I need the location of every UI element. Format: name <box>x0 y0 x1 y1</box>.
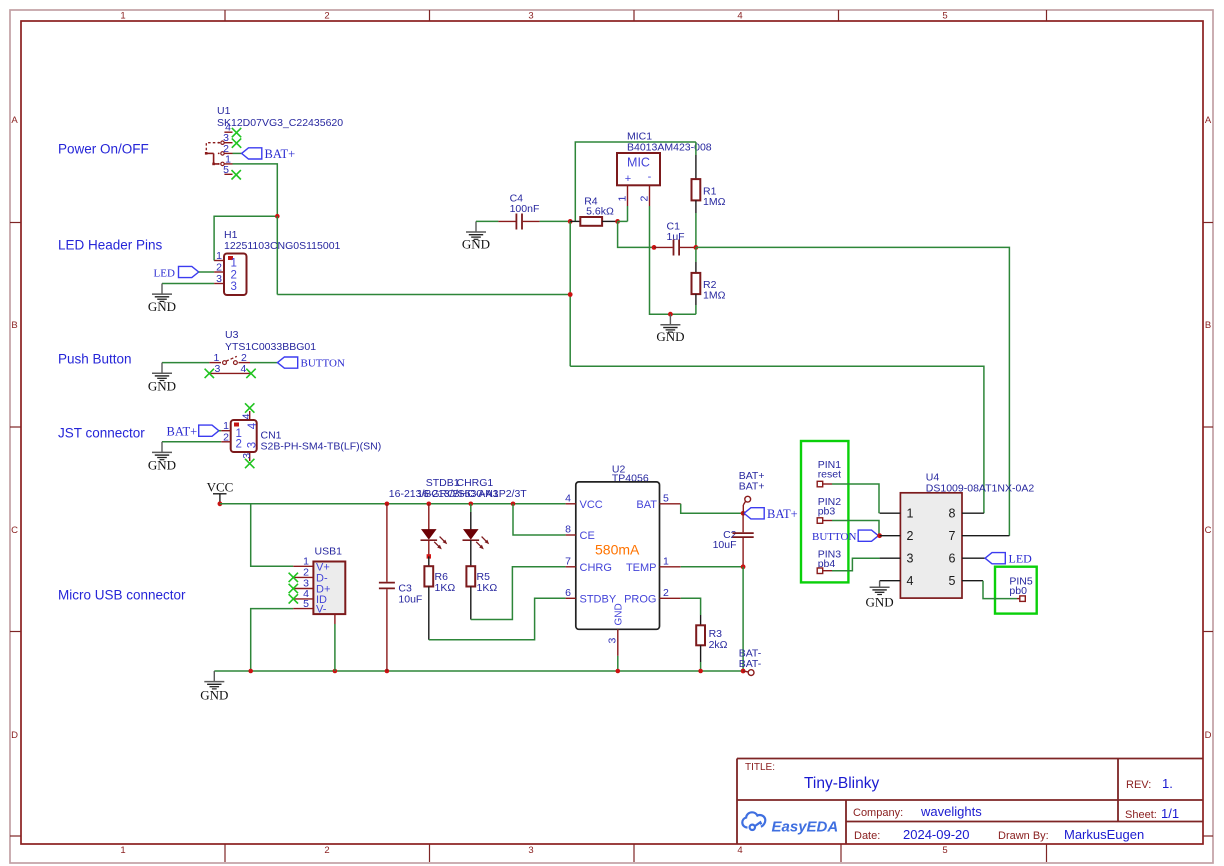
junction dot node E (C1 right) <box>694 245 699 250</box>
header H1 pin1 marker <box>228 256 233 260</box>
header H1 pin 3 lead <box>214 283 224 285</box>
svg-text:1.: 1. <box>1162 776 1173 791</box>
svg-text:3: 3 <box>216 273 222 285</box>
U4 pin 7 lead <box>962 535 1010 537</box>
no-connect X U3 pin 3 <box>205 369 214 378</box>
svg-text:3: 3 <box>907 552 914 566</box>
USB1 pin 2 lead <box>293 576 313 578</box>
svg-text:C: C <box>11 525 18 536</box>
LED STDB1 <box>421 504 448 557</box>
resistor R5 <box>466 566 475 619</box>
svg-text:STDBY: STDBY <box>580 593 617 605</box>
wire BAT+ flag to CN1 pin1 <box>219 430 221 432</box>
port PIN3 square <box>817 568 823 574</box>
wire U2 TEMP to node <box>681 566 743 568</box>
ground (H1) <box>152 284 172 302</box>
U4 pin numbers <box>907 507 956 589</box>
svg-text:EasyEDA: EasyEDA <box>772 819 839 836</box>
wire node C down to C1 row <box>618 221 654 247</box>
no-connect X USB1 pin 2 <box>289 573 298 582</box>
resistor R1 <box>692 142 701 247</box>
wire MIC pin2 down <box>650 206 671 314</box>
svg-text:GND: GND <box>148 379 176 394</box>
svg-text:2: 2 <box>907 529 914 543</box>
port PIN1 square <box>817 481 823 487</box>
U2 left pin names <box>580 499 617 606</box>
no-connect X U1 pin 4 <box>232 128 241 137</box>
svg-text:reset: reset <box>818 469 841 481</box>
svg-text:1: 1 <box>907 507 914 521</box>
MIC1 pin 2 lead <box>649 185 651 206</box>
wire USB1 V- to bottom rail <box>251 609 294 671</box>
svg-text:A: A <box>1205 115 1212 126</box>
svg-text:+: + <box>625 173 631 185</box>
svg-text:-: - <box>648 171 652 183</box>
svg-text:B4013AM423-008: B4013AM423-008 <box>627 142 712 154</box>
wire node E to U4 pin7 column <box>696 247 1010 535</box>
U2 pin 2 PROG lead <box>660 597 681 599</box>
svg-text:3: 3 <box>215 363 221 375</box>
wire CN1 pin2 to ground <box>162 441 221 443</box>
U2 pin 6 STDBY lead <box>566 597 576 599</box>
svg-text:Drawn By:: Drawn By: <box>998 830 1049 842</box>
frame bottom ruler ticks <box>225 844 1047 862</box>
wire node A down to node F <box>276 216 278 294</box>
title block outline <box>737 759 1203 845</box>
svg-text:LED: LED <box>154 268 175 280</box>
svg-text:6: 6 <box>565 587 571 599</box>
pushbutton U3 pin 1 lead <box>209 362 221 364</box>
resistor R3 <box>696 615 705 671</box>
svg-text:V-: V- <box>316 604 327 616</box>
svg-text:5: 5 <box>949 574 956 588</box>
U2 right pin names <box>624 499 657 606</box>
junction dot rail/C3 <box>385 669 390 674</box>
USB1 pin 1 lead <box>293 565 313 567</box>
frame column numbers top <box>120 11 947 22</box>
junction dot rail/U2 GND <box>616 669 621 674</box>
svg-text:5: 5 <box>303 598 309 610</box>
svg-text:BAT: BAT <box>636 499 657 511</box>
svg-text:16-213/BHC-AN1P2/3T: 16-213/BHC-AN1P2/3T <box>417 488 527 500</box>
wire U3 pin2 to BUTTON flag <box>250 362 278 364</box>
bottom ground rail wire <box>214 670 743 672</box>
resistor R2 <box>692 247 701 314</box>
wire U4 pin5 to PIN5 port <box>983 581 1017 599</box>
header H1 inner pin names <box>231 258 237 294</box>
svg-text:CE: CE <box>580 530 595 542</box>
svg-text:3: 3 <box>607 638 619 644</box>
header H1 outer pin numbers <box>216 250 222 285</box>
wire U1 pin1 to node A <box>233 164 278 216</box>
junction dot rail/USB shield <box>333 669 338 674</box>
svg-text:BAT+: BAT+ <box>739 481 765 493</box>
svg-text:pb0: pb0 <box>1009 585 1027 597</box>
no-connect X CN1 pin 4 <box>245 403 254 412</box>
port BAT+ circle <box>745 496 751 502</box>
capacitor C1 <box>654 240 696 256</box>
svg-text:580mA: 580mA <box>595 542 640 558</box>
junction dot VCC/STDB1 <box>427 502 432 507</box>
svg-text:BUTTON: BUTTON <box>301 358 345 370</box>
USB1 shield pin lead <box>334 614 336 624</box>
svg-text:4: 4 <box>241 413 253 419</box>
wire ground to U3 pin1 <box>162 362 209 364</box>
svg-text:4: 4 <box>247 422 259 429</box>
svg-text:1: 1 <box>120 11 125 22</box>
junction dot node C <box>615 219 620 224</box>
svg-text:pb3: pb3 <box>818 506 836 518</box>
switch U1 pin numbers <box>223 122 231 176</box>
svg-text:Tiny-Blinky: Tiny-Blinky <box>804 775 879 792</box>
wire U2 PROG to R3 <box>681 598 701 615</box>
switch U1 pin 3 lead <box>224 142 232 144</box>
svg-text:CHRG: CHRG <box>580 562 612 574</box>
EasyEDA logo cloud <box>742 812 765 830</box>
svg-text:VCC: VCC <box>580 499 603 511</box>
net flag BUTTON (U3) <box>278 357 298 368</box>
frame row letters right <box>1205 115 1212 741</box>
svg-text:1: 1 <box>617 196 629 202</box>
ground (MIC area) <box>660 314 680 332</box>
resistor R6 <box>424 556 433 639</box>
svg-text:VCC: VCC <box>207 480 234 495</box>
svg-text:A: A <box>11 115 18 126</box>
svg-text:PROG: PROG <box>624 593 656 605</box>
junction dot node D (C1 left) <box>652 245 657 250</box>
capacitor C3 <box>379 504 395 671</box>
wire R6 to U2 STDBY <box>429 598 566 640</box>
green highlight box PIN1-PIN3 <box>801 441 848 582</box>
svg-text:1KΩ: 1KΩ <box>477 582 498 594</box>
svg-text:4: 4 <box>241 363 247 375</box>
no-connect X USB1 pin 3 <box>289 584 298 593</box>
svg-text:3: 3 <box>528 11 533 22</box>
frame column numbers bottom <box>120 845 947 856</box>
microphone MIC1 body <box>617 153 660 185</box>
svg-text:5: 5 <box>942 11 947 22</box>
svg-text:8: 8 <box>949 507 956 521</box>
svg-text:C: C <box>1205 525 1212 536</box>
U2 pin 5 BAT lead <box>660 503 681 505</box>
svg-text:2024-09-20: 2024-09-20 <box>903 827 970 842</box>
svg-text:3: 3 <box>231 281 237 293</box>
USB1 pin names <box>316 561 330 615</box>
wire LED flag to H1 pin2 <box>199 271 214 273</box>
U2 GND pin lead <box>617 629 619 656</box>
svg-text:Power On/OFF: Power On/OFF <box>58 142 149 157</box>
wire PIN1 to U4 pin1 <box>823 483 832 485</box>
svg-text:MarkusEugen: MarkusEugen <box>1064 827 1144 842</box>
USB1 pin 3 lead <box>293 588 313 590</box>
svg-text:GND: GND <box>866 595 894 610</box>
svg-text:1uF: 1uF <box>667 231 685 243</box>
net flag BAT+ (U1) <box>242 148 262 159</box>
svg-text:SK12D07VG3_C22435620: SK12D07VG3_C22435620 <box>217 117 343 129</box>
switch U1 pin 1 lead <box>224 163 232 165</box>
wire R5 to U2 CHRG <box>471 567 566 620</box>
wire node C to MIC pin1 <box>618 220 628 222</box>
svg-text:S2B-PH-SM4-TB(LF)(SN): S2B-PH-SM4-TB(LF)(SN) <box>261 441 382 453</box>
svg-text:5: 5 <box>942 845 947 856</box>
svg-text:LED Header Pins: LED Header Pins <box>58 238 163 253</box>
switch U1 pin 5 lead <box>224 173 232 175</box>
junction dot node F <box>568 292 573 297</box>
switch U1 pin 4 lead <box>224 131 232 133</box>
svg-text:1KΩ: 1KΩ <box>435 582 456 594</box>
svg-text:LED: LED <box>1009 552 1033 566</box>
svg-text:10uF: 10uF <box>398 594 422 606</box>
svg-text:2: 2 <box>223 431 229 443</box>
svg-text:4: 4 <box>737 845 742 856</box>
wire MIC top feed <box>575 142 696 221</box>
svg-text:MIC: MIC <box>627 156 650 170</box>
svg-text:YTS1C0033BBG01: YTS1C0033BBG01 <box>225 341 316 353</box>
USB1 pin numbers <box>303 556 309 610</box>
ground (U3) <box>152 363 172 381</box>
svg-text:12251103CNG0S115001: 12251103CNG0S115001 <box>224 240 341 252</box>
wire ground to C4 <box>476 220 498 222</box>
junction dot BAT+ node <box>741 511 746 516</box>
wire C4 to node B <box>540 220 571 222</box>
svg-text:2: 2 <box>324 11 329 22</box>
no-connect X U1 pin 5 <box>232 170 241 179</box>
svg-text:D: D <box>11 730 18 741</box>
svg-text:2: 2 <box>663 587 669 599</box>
no-connect X USB1 pin 4 <box>289 594 298 603</box>
switch U1 pin 2 lead <box>224 152 232 154</box>
wire VCC rail to USB1 V+ <box>251 504 294 567</box>
svg-text:5.6kΩ: 5.6kΩ <box>586 206 614 218</box>
svg-text:GND: GND <box>148 299 176 314</box>
svg-text:JST connector: JST connector <box>58 426 145 441</box>
port PIN5 square <box>1020 596 1026 602</box>
svg-text:1: 1 <box>663 555 669 567</box>
svg-text:4: 4 <box>565 492 571 504</box>
svg-text:Sheet:: Sheet: <box>1125 809 1157 821</box>
net flag LED (U4) <box>985 553 1005 564</box>
svg-text:1MΩ: 1MΩ <box>703 290 726 302</box>
junction dot rail/USB vertical <box>248 669 253 674</box>
svg-text:2: 2 <box>231 269 237 281</box>
capacitor C2 labels <box>713 529 737 551</box>
svg-text:100nF: 100nF <box>510 203 540 215</box>
svg-text:1: 1 <box>231 258 237 270</box>
JST CN1 pin1 marker <box>234 423 239 427</box>
svg-text:3: 3 <box>528 845 533 856</box>
U4 pin 8 lead <box>962 512 984 514</box>
svg-text:GND: GND <box>656 329 684 344</box>
ground (CN1) <box>152 442 172 460</box>
net flag BAT+ (U2) <box>744 508 764 519</box>
resistor R4 <box>570 217 617 226</box>
svg-text:Push Button: Push Button <box>58 352 132 367</box>
U4 pin 4 lead <box>880 580 901 582</box>
svg-text:3: 3 <box>247 442 259 448</box>
switch U1 body <box>205 141 224 166</box>
wire PIN2 to BUTTON node <box>823 520 832 522</box>
svg-text:BUTTON: BUTTON <box>812 531 856 543</box>
junction dot VCC/CHRG1 <box>469 502 474 507</box>
junction dot TEMP node <box>741 564 746 569</box>
JST CN1 pin 2 lead <box>221 441 231 443</box>
pushbutton U3 actuator <box>226 356 237 361</box>
no-connect X CN1 pin 3 <box>245 459 254 468</box>
svg-text:4: 4 <box>737 11 742 22</box>
U2 left pin numbers <box>565 492 571 599</box>
svg-text:8: 8 <box>565 524 571 536</box>
U4 pin 5 lead <box>962 580 983 582</box>
wire TEMP node down to BAT- <box>742 567 744 671</box>
svg-text:1: 1 <box>120 845 125 856</box>
svg-text:2: 2 <box>324 845 329 856</box>
frame top ruler ticks <box>225 10 1047 21</box>
capacitor C2 <box>733 513 754 567</box>
JST CN1 pin 1 lead <box>221 430 231 432</box>
junction dot VCC/C3 <box>385 502 390 507</box>
ground (U4 pin4) <box>870 581 890 595</box>
svg-text:U1: U1 <box>217 105 231 117</box>
U4 pin 1 lead <box>880 512 901 514</box>
USB1 pin 5 lead <box>293 608 313 610</box>
JST CN1 pin 3 lead bottom <box>249 452 251 461</box>
wire PIN3 to U4 pin3 <box>823 570 832 572</box>
svg-text:BAT+: BAT+ <box>767 507 798 521</box>
pushbutton U3 pin 2 lead <box>239 362 251 364</box>
junction dot rail/R3 <box>698 669 703 674</box>
green highlight box PIN5 <box>995 567 1037 614</box>
header H1 pin 1 lead <box>214 260 224 262</box>
svg-text:Company:: Company: <box>853 807 903 819</box>
wire VCC rail <box>220 503 566 505</box>
wire H1 pin3 to ground <box>162 283 214 285</box>
svg-text:1/1: 1/1 <box>1161 806 1179 821</box>
svg-text:Date:: Date: <box>854 830 880 842</box>
header H1 body <box>224 254 247 296</box>
capacitor C4 <box>498 214 539 230</box>
svg-text:B: B <box>11 320 17 331</box>
JST CN1 pin numbers <box>223 420 229 443</box>
svg-text:4: 4 <box>907 574 914 588</box>
USB1 body <box>313 562 345 615</box>
port PIN2 square <box>817 518 823 524</box>
junction dot rail/BAT- <box>741 669 746 674</box>
frame right ruler ticks <box>1203 223 1213 837</box>
svg-text:10uF: 10uF <box>713 539 737 551</box>
svg-text:GND: GND <box>614 603 625 625</box>
svg-text:2: 2 <box>236 439 242 451</box>
IC U2 body <box>576 482 660 629</box>
svg-text:5: 5 <box>663 492 669 504</box>
svg-text:GND: GND <box>200 688 228 703</box>
port BAT- circle <box>748 670 754 676</box>
VCC junction dot <box>218 501 223 506</box>
wire VCC branch to U2 CE <box>513 504 566 535</box>
svg-text:6: 6 <box>949 552 956 566</box>
svg-text:GND: GND <box>462 237 490 252</box>
wire USB1 shield to rail <box>334 624 336 671</box>
U4 pin 6 lead <box>962 557 985 559</box>
svg-text:TEMP: TEMP <box>626 562 657 574</box>
svg-text:TITLE:: TITLE: <box>745 762 775 773</box>
U2 pin 7 CHRG lead <box>566 566 576 568</box>
pushbutton U3 contacts <box>223 361 227 365</box>
svg-text:3: 3 <box>241 453 253 459</box>
svg-text:Micro USB connector: Micro USB connector <box>58 588 186 603</box>
no-connect X U3 pin 4 <box>246 369 255 378</box>
pushbutton U3 pin numbers <box>214 352 248 375</box>
junction dot node B <box>568 219 573 224</box>
USB1 pin 4 lead <box>293 598 313 600</box>
svg-text:7: 7 <box>565 555 571 567</box>
svg-text:1: 1 <box>216 250 222 262</box>
no-connect X U1 pin 3 <box>232 138 241 147</box>
frame row letters left <box>11 115 18 741</box>
pushbutton U3 pins 3-4 bar <box>209 372 251 374</box>
wire node B down through node F <box>569 221 571 366</box>
wire U2 GND to rail <box>617 656 619 671</box>
wire node F horizontal to MIC column <box>277 294 570 296</box>
svg-text:5: 5 <box>223 164 229 176</box>
svg-text:wavelights: wavelights <box>920 804 982 819</box>
svg-text:D: D <box>1205 730 1212 741</box>
wire node A to H1 pin1 <box>214 216 277 260</box>
svg-text:BAT+: BAT+ <box>167 425 198 439</box>
svg-text:USB1: USB1 <box>315 546 343 558</box>
junction dot node G <box>668 312 673 317</box>
header H1 pin 2 lead <box>214 271 224 273</box>
junction dot VCC/CE branch <box>511 502 516 507</box>
svg-text:GND: GND <box>148 458 176 473</box>
svg-text:B: B <box>1205 320 1211 331</box>
svg-text:BAT-: BAT- <box>739 658 762 670</box>
U4 pin 3 lead <box>880 557 901 559</box>
node A junction dot <box>275 214 280 219</box>
U4 pin 2 lead <box>880 535 901 537</box>
junction dot BUTTON node <box>877 533 882 538</box>
wire node F row to U4 pin8 column <box>570 366 984 513</box>
svg-text:7: 7 <box>949 529 956 543</box>
svg-text:REV:: REV: <box>1126 779 1151 791</box>
MIC1 pin 1 lead <box>627 185 629 206</box>
JST connector CN1 body <box>231 420 257 452</box>
IC U4 body <box>900 493 962 598</box>
wire R2 bottom row <box>670 313 696 315</box>
U2 pin 4 VCC lead <box>566 503 576 505</box>
svg-text:BAT+: BAT+ <box>265 147 296 161</box>
U2 pin 1 TEMP lead <box>660 566 681 568</box>
svg-text:U3: U3 <box>225 329 239 341</box>
frame left ruler ticks <box>10 223 21 837</box>
LED CHRG1 <box>463 504 490 566</box>
svg-text:2: 2 <box>216 262 222 274</box>
svg-text:1MΩ: 1MΩ <box>703 196 726 208</box>
U2 right pin numbers <box>663 492 669 599</box>
JST CN1 inner pin names <box>236 428 242 451</box>
ground (C4) <box>466 221 486 239</box>
svg-text:2: 2 <box>639 196 651 202</box>
JST CN1 pin 4 lead top <box>249 411 251 420</box>
wire U2 BAT to BAT+ node <box>681 504 743 514</box>
svg-text:2kΩ: 2kΩ <box>709 639 728 651</box>
junction STDB1/R6 <box>427 554 431 558</box>
wire U1 pin2 to BAT+ flag <box>233 152 242 154</box>
ground (bottom rail) <box>204 671 224 689</box>
U2 pin 8 CE lead <box>566 534 576 536</box>
